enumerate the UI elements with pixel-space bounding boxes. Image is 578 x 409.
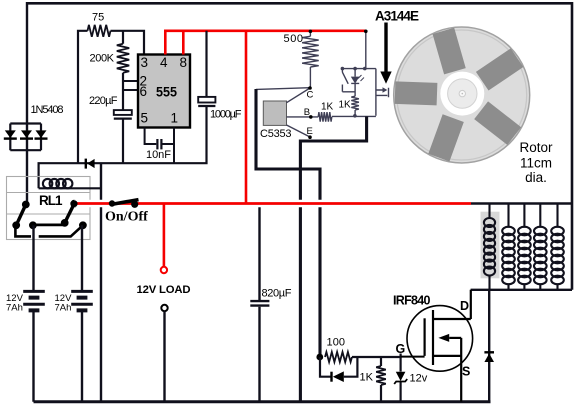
svg-text:S: S <box>462 365 470 379</box>
svg-text:A3144E: A3144E <box>375 8 419 23</box>
wire red pin8 drop <box>182 31 185 55</box>
wire bottom ground rail <box>34 400 491 403</box>
svg-text:Rotor: Rotor <box>519 140 553 155</box>
svg-text:4: 4 <box>160 55 168 70</box>
diode speedup (points left) <box>320 357 357 377</box>
resistor 100 <box>325 352 352 362</box>
wire coil bottom bus <box>471 289 572 291</box>
inductor coil L4 <box>534 204 547 290</box>
resistor 1K base <box>318 112 332 122</box>
transistor C5353 <box>256 86 318 140</box>
inductor coil L3 <box>518 204 531 290</box>
wire relay-right vertical down <box>100 163 102 402</box>
diode on output bus (points left) <box>86 159 95 169</box>
hall subcircuit rails <box>332 32 376 117</box>
svg-text:7Ah: 7Ah <box>6 303 23 314</box>
svg-text:C: C <box>307 90 314 101</box>
svg-text:7Ah: 7Ah <box>55 303 72 314</box>
rotor disc <box>394 27 530 163</box>
inductor coil L2 <box>502 204 515 290</box>
svg-text:555: 555 <box>156 85 177 100</box>
svg-text:On/Off: On/Off <box>105 210 148 225</box>
capacitor 220uF <box>114 110 132 119</box>
svg-text:12v: 12v <box>410 373 428 385</box>
inductor coil L1 <box>484 204 495 290</box>
load bottom terminal <box>161 305 167 311</box>
wire red main rail <box>74 200 471 207</box>
svg-text:3: 3 <box>141 55 149 70</box>
svg-text:820µF: 820µF <box>262 288 292 300</box>
wire pin2 pin6 stubs <box>123 81 138 90</box>
svg-text:8: 8 <box>180 55 188 70</box>
capacitor 820uF <box>250 204 269 402</box>
svg-text:500: 500 <box>284 33 304 45</box>
battery B2 12V 7Ah <box>71 225 93 401</box>
node junction <box>316 354 323 361</box>
wire output bus y163 <box>39 31 207 189</box>
svg-text:dia.: dia. <box>525 170 547 185</box>
zener diode 12v <box>400 354 402 402</box>
relay coil <box>39 179 101 188</box>
resistor 500 <box>309 32 311 87</box>
svg-text:12V LOAD: 12V LOAD <box>137 284 191 296</box>
wire 75-resistor branch <box>78 31 144 164</box>
battery B1 12V 7Ah <box>23 225 45 401</box>
svg-text:75: 75 <box>92 12 104 24</box>
wire red load drop + terminal <box>163 204 166 268</box>
diode freewheel <box>488 290 490 402</box>
svg-text:C5353: C5353 <box>260 128 292 140</box>
wire pin1 lead <box>163 128 175 164</box>
svg-text:1K: 1K <box>360 372 374 384</box>
svg-text:1K: 1K <box>339 99 352 110</box>
svg-text:IRF840: IRF840 <box>393 293 431 307</box>
wire collector drive path <box>256 89 320 357</box>
svg-text:220µF: 220µF <box>89 95 118 107</box>
svg-text:B: B <box>304 107 310 118</box>
relay switch 1 <box>13 200 87 236</box>
relay switch 2 <box>30 222 37 229</box>
resistor 1K gate <box>380 357 382 402</box>
svg-text:100: 100 <box>327 337 346 349</box>
wire coil top: red becomes black <box>471 202 572 205</box>
op-amp/timer IC 555 <box>138 55 190 128</box>
LED indicator <box>351 69 359 97</box>
node relay pole2 <box>71 200 78 207</box>
hall element A3144E <box>376 69 389 116</box>
wire left drop from top rail <box>26 2 28 205</box>
wire top rail <box>27 2 572 5</box>
svg-text:1N5408: 1N5408 <box>31 104 64 116</box>
rotor label <box>519 140 553 185</box>
transistor IRF840 MOSFET <box>401 290 473 402</box>
svg-text:E: E <box>307 126 313 137</box>
svg-text:6: 6 <box>140 84 148 99</box>
svg-text:RL1: RL1 <box>39 193 63 208</box>
wire pin5 lead <box>145 128 157 145</box>
wire emitter path <box>300 116 366 401</box>
inductor coil L5 <box>551 204 564 290</box>
resistor 200K branch <box>122 31 124 164</box>
svg-text:200K: 200K <box>90 53 115 65</box>
wire right rail <box>571 2 574 290</box>
svg-text:1000µF: 1000µF <box>210 109 242 121</box>
resistor R 75 <box>88 25 111 37</box>
svg-text:11cm: 11cm <box>520 156 552 171</box>
svg-text:1: 1 <box>171 111 179 126</box>
capacitor 1000uF <box>198 97 215 106</box>
capacitor 10nF <box>157 139 161 149</box>
hall switch contact <box>342 69 355 92</box>
switch On/Off <box>109 200 139 208</box>
svg-text:1K: 1K <box>321 101 334 112</box>
coil highlight <box>481 212 500 279</box>
svg-text:D: D <box>460 299 469 313</box>
relay RL1 outline box <box>7 177 91 240</box>
svg-text:5: 5 <box>141 111 149 126</box>
svg-text:10nF: 10nF <box>146 149 171 161</box>
diode array 1N5408 <box>4 124 48 151</box>
wire red mid drop <box>245 31 248 204</box>
svg-text:G: G <box>396 342 406 356</box>
wire red V+ bus <box>165 31 366 55</box>
